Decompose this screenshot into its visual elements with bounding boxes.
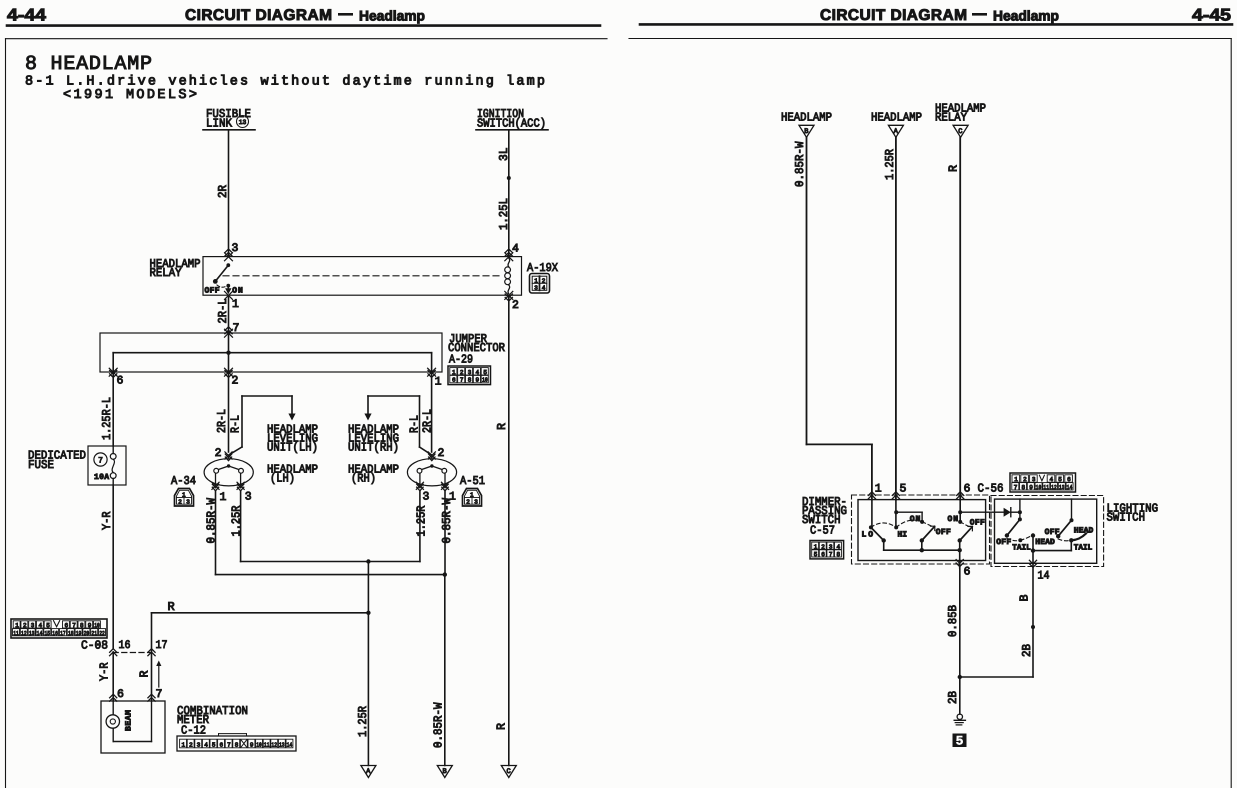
svg-text:R: R — [168, 600, 175, 614]
svg-text:6: 6 — [964, 566, 971, 579]
bus to ground — [960, 676, 1033, 678]
headlamp LH pin 3 — [237, 482, 244, 489]
wire 0.85R-W RH — [444, 491, 446, 575]
svg-text:2: 2 — [178, 498, 182, 505]
ground — [957, 714, 962, 719]
svg-text:6: 6 — [117, 375, 124, 388]
svg-text:3: 3 — [197, 742, 201, 749]
svg-text:TAIL: TAIL — [1012, 544, 1031, 553]
inline connector A right — [888, 125, 903, 137]
svg-text:6: 6 — [821, 551, 825, 558]
svg-text:0.85B: 0.85B — [946, 605, 960, 637]
connector strip A-29 — [448, 366, 491, 385]
svg-text:B: B — [804, 128, 808, 136]
svg-text:Headlamp: Headlamp — [993, 8, 1059, 24]
svg-text:20: 20 — [84, 630, 90, 637]
svg-text:BEAM: BEAM — [125, 710, 134, 731]
svg-text:A-51: A-51 — [460, 474, 485, 488]
svg-text:3: 3 — [474, 498, 478, 505]
wire 1.25R right — [895, 137, 897, 499]
svg-text:4: 4 — [512, 243, 519, 256]
svg-text:3: 3 — [829, 543, 833, 550]
lighting second pole — [1071, 499, 1073, 520]
wire 2B to ground — [959, 677, 961, 714]
wire R-L to leveling unit RH — [419, 396, 421, 447]
svg-text:12: 12 — [271, 742, 277, 749]
svg-text:11: 11 — [264, 742, 270, 749]
svg-text:1: 1 — [182, 742, 186, 749]
svg-text:2: 2 — [232, 375, 239, 388]
svg-text:OFF: OFF — [1045, 528, 1060, 537]
headlamp RH pin 3 — [416, 482, 423, 489]
svg-text:14: 14 — [1067, 484, 1073, 491]
svg-text:10: 10 — [256, 742, 262, 749]
left page frame — [6, 38, 608, 40]
C-08 pin 16 — [110, 649, 117, 656]
dimmer common bus — [884, 549, 960, 551]
svg-text:R: R — [494, 723, 508, 730]
inline connector B right — [799, 125, 814, 137]
svg-text:C-57: C-57 — [810, 524, 835, 538]
svg-text:9: 9 — [88, 622, 92, 629]
jumper pin 6 — [109, 368, 117, 376]
svg-text:2R-L: 2R-L — [215, 409, 229, 433]
wire R combination meter — [152, 612, 369, 614]
svg-text:12: 12 — [1051, 484, 1057, 491]
svg-text:2: 2 — [1023, 476, 1027, 483]
svg-text:1.25L: 1.25L — [497, 198, 511, 230]
svg-text:5: 5 — [900, 483, 907, 496]
bus 0.85R-W — [216, 574, 446, 576]
svg-text:4: 4 — [38, 622, 42, 629]
svg-text:8: 8 — [468, 377, 472, 384]
current direction arrow — [158, 663, 160, 687]
jumper pin 2 — [225, 368, 233, 376]
svg-text:1: 1 — [15, 622, 19, 629]
svg-text:2: 2 — [460, 369, 464, 376]
svg-text:6: 6 — [117, 688, 124, 701]
svg-text:5: 5 — [956, 734, 964, 749]
wire to pin 14 — [1032, 536, 1034, 564]
svg-text:(RH): (RH) — [351, 472, 376, 486]
svg-text:2R-L: 2R-L — [216, 299, 230, 324]
svg-text:10A: 10A — [94, 473, 109, 482]
svg-text:Y-R: Y-R — [98, 663, 112, 682]
svg-text:1: 1 — [534, 277, 538, 284]
C-57 pin 6 bottom — [959, 550, 961, 568]
svg-text:22: 22 — [99, 630, 105, 637]
wire 0.85R-W LH — [215, 491, 217, 575]
wire 0.85B — [959, 561, 961, 678]
svg-text:0.85R-W: 0.85R-W — [204, 497, 218, 543]
svg-text:14: 14 — [37, 630, 43, 637]
svg-text:(LH): (LH) — [270, 472, 295, 486]
svg-text:1: 1 — [814, 543, 818, 550]
svg-text:ON: ON — [232, 287, 243, 296]
svg-text:11: 11 — [13, 630, 19, 637]
wire 0.85R-W right — [806, 137, 808, 444]
inline connector A — [361, 766, 376, 778]
svg-text:4-44: 4-44 — [7, 6, 47, 25]
relay pin 2 — [505, 291, 513, 299]
svg-text:2: 2 — [215, 447, 222, 460]
svg-text:R: R — [495, 423, 509, 430]
right page frame — [629, 38, 1231, 40]
wire 0.85R-W to connector B — [444, 575, 446, 766]
svg-text:Headlamp: Headlamp — [359, 8, 425, 24]
lighting switch head contact — [1019, 499, 1021, 519]
inline connector C — [501, 766, 516, 778]
svg-text:2: 2 — [189, 742, 193, 749]
svg-text:2R-L: 2R-L — [421, 409, 435, 433]
svg-text:6: 6 — [452, 377, 456, 384]
svg-text:3: 3 — [245, 491, 252, 504]
meter pin 7 — [148, 694, 155, 701]
inline connector C right — [953, 125, 968, 137]
connector strip C-56 — [1010, 473, 1076, 492]
svg-text:RELAY: RELAY — [150, 266, 182, 280]
svg-text:6: 6 — [964, 483, 971, 496]
svg-text:7: 7 — [72, 622, 76, 629]
svg-text:2B: 2B — [1020, 644, 1034, 657]
svg-text:1: 1 — [452, 369, 456, 376]
svg-text:C: C — [958, 128, 962, 136]
svg-text:5: 5 — [1058, 476, 1062, 483]
wire B / 2B — [1032, 563, 1034, 677]
svg-text:3: 3 — [423, 491, 430, 504]
svg-text:6: 6 — [220, 742, 224, 749]
svg-text:7: 7 — [1014, 484, 1018, 491]
jumper connector A-29 — [100, 333, 442, 372]
svg-text:4: 4 — [1050, 476, 1054, 483]
svg-text:C: C — [507, 768, 511, 776]
left header rule — [7, 24, 600, 27]
svg-text:OFF: OFF — [970, 519, 985, 528]
svg-text:19: 19 — [76, 630, 82, 637]
svg-text:8-1 L.H.drive vehicles without: 8-1 L.H.drive vehicles without daytime r… — [25, 75, 545, 90]
svg-text:12: 12 — [21, 630, 27, 637]
svg-text:3: 3 — [186, 498, 190, 505]
svg-text:9: 9 — [476, 377, 480, 384]
wire 1.25R LH — [240, 491, 242, 562]
svg-text:7: 7 — [98, 457, 103, 466]
wire 3L / 1.25L — [508, 130, 510, 257]
wire Y-R fuse to C-08 — [112, 485, 114, 648]
combination meter C-12 — [101, 701, 165, 753]
wire 2R-L relay to jumper — [228, 295, 230, 333]
svg-text:1: 1 — [435, 376, 442, 389]
svg-text:R: R — [138, 671, 152, 678]
ground reference 5 — [953, 734, 967, 748]
svg-text:R-L: R-L — [229, 415, 243, 433]
svg-text:10: 10 — [482, 377, 488, 384]
svg-text:16: 16 — [119, 639, 131, 652]
relay pin 1 — [225, 291, 233, 299]
relay coil — [508, 258, 510, 267]
svg-text:4: 4 — [476, 369, 480, 376]
headlamp RH pin 1 — [441, 482, 448, 489]
wire 1.25R RH — [419, 491, 421, 562]
svg-text:A-29: A-29 — [449, 353, 473, 367]
svg-text:FUSE: FUSE — [28, 458, 54, 472]
connector strip C-12 — [177, 736, 296, 751]
svg-text:14: 14 — [1038, 570, 1050, 583]
svg-text:R: R — [946, 165, 960, 172]
svg-text:CIRCUIT DIAGRAM: CIRCUIT DIAGRAM — [185, 7, 332, 24]
svg-text:SWITCH: SWITCH — [1107, 511, 1146, 525]
svg-text:9: 9 — [1029, 484, 1033, 491]
C-56 pin 14 — [1029, 560, 1036, 567]
wire 2R-L jumper to headlamp LH — [228, 372, 230, 452]
off lever — [960, 527, 973, 541]
dimmer lever LO — [871, 527, 884, 540]
passing lever — [922, 527, 935, 541]
jumper internal bus — [228, 333, 230, 372]
wire Y-R to meter — [112, 652, 114, 701]
svg-text:A-34: A-34 — [171, 474, 196, 488]
svg-text:4-45: 4-45 — [1192, 6, 1231, 25]
svg-text:17: 17 — [156, 639, 168, 652]
svg-text:8: 8 — [80, 622, 84, 629]
meter pin 6 — [110, 694, 117, 701]
svg-text:Y-R: Y-R — [100, 512, 114, 531]
svg-text:4: 4 — [542, 285, 546, 292]
svg-text:5: 5 — [212, 742, 216, 749]
svg-text:7: 7 — [460, 377, 464, 384]
svg-text:3: 3 — [534, 285, 538, 292]
wire 1.25R-L jumper to fuse — [112, 372, 114, 446]
svg-text:6: 6 — [1067, 476, 1071, 483]
svg-text:5: 5 — [483, 369, 487, 376]
svg-text:2: 2 — [466, 498, 470, 505]
wire 1.25R to connector A — [367, 562, 369, 766]
svg-text:HEADLAMP: HEADLAMP — [781, 111, 832, 125]
svg-text:2: 2 — [512, 299, 519, 312]
svg-text:5: 5 — [46, 622, 50, 629]
svg-text:10: 10 — [94, 622, 100, 629]
svg-text:13: 13 — [279, 742, 285, 749]
svg-text:LINK: LINK — [206, 117, 233, 131]
C-56 pin 6 — [957, 492, 964, 499]
svg-text:RELAY: RELAY — [935, 111, 967, 125]
dimmer switch internals — [871, 500, 873, 528]
svg-text:13: 13 — [29, 630, 35, 637]
svg-text:1.25R-L: 1.25R-L — [100, 397, 114, 440]
svg-text:21: 21 — [91, 630, 97, 637]
dimmer wire 6 top — [959, 500, 961, 522]
headlamp LH pin 1 — [212, 482, 219, 489]
svg-text:1.25R: 1.25R — [356, 706, 370, 737]
svg-text:CIRCUIT DIAGRAM: CIRCUIT DIAGRAM — [820, 7, 967, 24]
svg-text:3: 3 — [1032, 476, 1036, 483]
svg-text:2: 2 — [438, 447, 445, 460]
svg-text:6: 6 — [65, 622, 69, 629]
svg-text:3: 3 — [468, 369, 472, 376]
svg-text:8 HEADLAMP: 8 HEADLAMP — [25, 53, 152, 76]
svg-text:4: 4 — [837, 543, 841, 550]
svg-text:18: 18 — [68, 630, 74, 637]
bus 1.25R — [241, 561, 420, 563]
right header rule — [640, 23, 1232, 26]
svg-text:8: 8 — [1022, 484, 1026, 491]
svg-text:ON: ON — [910, 515, 921, 524]
svg-text:5: 5 — [814, 551, 818, 558]
svg-text:0.85R-W: 0.85R-W — [440, 497, 454, 543]
svg-text:1: 1 — [232, 298, 239, 311]
svg-text:17: 17 — [60, 630, 66, 637]
jumper pin 1 — [428, 368, 436, 376]
svg-text:HI: HI — [898, 531, 908, 540]
svg-text:10: 10 — [1036, 484, 1042, 491]
svg-text:1.25R: 1.25R — [414, 506, 428, 537]
svg-text:2: 2 — [23, 622, 27, 629]
connector C-08 — [11, 619, 107, 638]
svg-text:2: 2 — [542, 277, 546, 284]
svg-text:13: 13 — [239, 119, 247, 126]
inline connector B — [437, 766, 452, 778]
svg-text:B: B — [1017, 595, 1031, 602]
svg-text:7: 7 — [829, 551, 833, 558]
svg-text:8: 8 — [235, 742, 239, 749]
svg-text:SWITCH(ACC): SWITCH(ACC) — [477, 117, 546, 131]
svg-text:1.25R: 1.25R — [883, 149, 897, 180]
C-56 pin 1 — [868, 492, 875, 499]
svg-text:2B: 2B — [946, 691, 960, 704]
svg-text:0.85R-W: 0.85R-W — [793, 141, 807, 187]
svg-text:C-08: C-08 — [81, 639, 108, 653]
wire 2R — [228, 130, 230, 257]
svg-text:TAIL: TAIL — [1074, 544, 1093, 553]
svg-text:14: 14 — [287, 742, 293, 749]
svg-text:1.25R: 1.25R — [230, 506, 244, 537]
svg-text:HEADLAMP: HEADLAMP — [871, 111, 922, 125]
wire R to connector C — [508, 295, 510, 765]
svg-text:7: 7 — [227, 742, 231, 749]
svg-text:ON: ON — [948, 515, 959, 524]
svg-text:8: 8 — [837, 551, 841, 558]
svg-text:1: 1 — [875, 483, 882, 496]
svg-text:HEAD: HEAD — [1074, 527, 1094, 536]
C-08 pin 17 — [148, 649, 155, 656]
svg-text:4: 4 — [204, 742, 208, 749]
svg-text:1: 1 — [1014, 476, 1018, 483]
svg-text:9: 9 — [250, 742, 254, 749]
wire 2R-L jumper to headlamp RH — [431, 372, 433, 452]
svg-text:UNIT(RH): UNIT(RH) — [348, 441, 399, 455]
svg-text:C-56: C-56 — [978, 482, 1004, 496]
svg-text:OFF: OFF — [205, 287, 220, 296]
svg-text:3: 3 — [31, 622, 35, 629]
svg-text:11: 11 — [1043, 484, 1049, 491]
svg-text:UNIT(LH): UNIT(LH) — [267, 441, 318, 455]
svg-text:16: 16 — [52, 630, 58, 637]
wire R-L to leveling unit LH — [241, 396, 243, 447]
svg-text:OFF: OFF — [936, 528, 951, 537]
connector strip C-57 — [810, 541, 844, 559]
svg-text:R-L: R-L — [407, 415, 421, 433]
svg-text:B: B — [443, 768, 447, 776]
svg-text:3L: 3L — [497, 148, 511, 162]
svg-text:LO: LO — [862, 531, 874, 540]
svg-text:1: 1 — [220, 491, 227, 504]
C-56 pin 5 — [892, 492, 899, 499]
svg-text:0.85R-W: 0.85R-W — [432, 702, 446, 748]
svg-text:2R: 2R — [216, 185, 230, 198]
svg-text:7: 7 — [156, 688, 163, 701]
svg-text:HEAD: HEAD — [1035, 538, 1055, 547]
diode — [960, 511, 1004, 513]
relay switch contact — [226, 263, 230, 267]
svg-text:13: 13 — [1059, 484, 1065, 491]
svg-text:2: 2 — [821, 543, 825, 550]
wire R right — [959, 137, 961, 499]
svg-text:15: 15 — [44, 630, 50, 637]
